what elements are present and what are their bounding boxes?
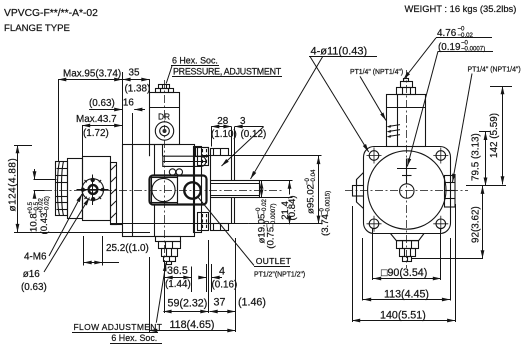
svg-text:(0.63): (0.63) [89, 98, 115, 109]
svg-text:(0.16): (0.16) [212, 280, 238, 291]
svg-text:FLOW ADJUSTMENT: FLOW ADJUSTMENT [74, 322, 163, 332]
svg-text:ø95.02: ø95.02 [306, 184, 317, 214]
svg-text:(0.63): (0.63) [21, 282, 47, 293]
svg-text:PT1/4" (NPT1/4"): PT1/4" (NPT1/4") [468, 67, 521, 74]
svg-text:59(2.32): 59(2.32) [168, 298, 208, 310]
svg-text:DR: DR [158, 112, 170, 122]
svg-text:4-M6: 4-M6 [24, 252, 47, 263]
svg-text:−0.02): −0.02) [44, 196, 51, 213]
svg-text:36.5: 36.5 [167, 265, 188, 277]
svg-text:140(5.51): 140(5.51) [380, 310, 426, 322]
svg-text:WEIGHT : 16 kgs (35.2lbs): WEIGHT : 16 kgs (35.2lbs) [405, 3, 517, 14]
svg-text:25.2((1.0): 25.2((1.0) [106, 243, 149, 254]
svg-text:10.8: 10.8 [29, 213, 40, 232]
svg-text:6 Hex. Soc.: 6 Hex. Soc. [172, 56, 218, 66]
svg-text:□90(3.54): □90(3.54) [381, 267, 427, 279]
svg-text:OUTLET: OUTLET [256, 256, 292, 266]
svg-text:3: 3 [240, 116, 246, 127]
svg-text:FLANGE TYPE: FLANGE TYPE [4, 23, 70, 34]
svg-text:−0.0015): −0.0015) [325, 191, 332, 215]
svg-text:28: 28 [217, 116, 228, 127]
svg-text:4: 4 [219, 266, 225, 278]
svg-text:92(3.62): 92(3.62) [471, 206, 482, 243]
svg-text:ø124(4.88): ø124(4.88) [8, 158, 19, 212]
svg-text:35: 35 [129, 68, 140, 79]
svg-text:PRESSURE, ADJUSTMENT: PRESSURE, ADJUSTMENT [173, 67, 282, 77]
svg-text:−0.04: −0.04 [310, 169, 317, 185]
svg-text:(0.75: (0.75 [266, 227, 277, 249]
svg-text:(0.84): (0.84) [287, 195, 298, 220]
svg-text:Max.95(3.74): Max.95(3.74) [63, 69, 121, 80]
svg-text:Max.43.7: Max.43.7 [76, 114, 117, 125]
svg-text:(3.74: (3.74 [320, 213, 331, 236]
svg-text:113(4.45): 113(4.45) [384, 289, 429, 301]
svg-text:PT1/4" (NPT1/4"): PT1/4" (NPT1/4") [350, 69, 403, 76]
svg-text:4-ø11(0.43): 4-ø11(0.43) [311, 46, 368, 58]
svg-text:−0.02: −0.02 [261, 198, 268, 214]
svg-text:16: 16 [123, 98, 134, 109]
svg-text:79.5 (3.13): 79.5 (3.13) [471, 133, 482, 181]
svg-text:(1.38): (1.38) [125, 84, 151, 95]
svg-text:142 (5.59): 142 (5.59) [489, 113, 500, 158]
svg-text:(1.44): (1.44) [165, 279, 191, 290]
svg-text:PT1/2"(NPT1/2"): PT1/2"(NPT1/2") [254, 272, 305, 279]
svg-text:(1.46): (1.46) [238, 297, 266, 309]
svg-text:118(4.65): 118(4.65) [170, 319, 215, 331]
svg-text:6 Hex. Soc.: 6 Hex. Soc. [111, 333, 157, 343]
svg-text:(0.12): (0.12) [241, 129, 267, 140]
svg-text:37: 37 [214, 297, 226, 309]
svg-text:VPVCG-F**/**-A*-02: VPVCG-F**/**-A*-02 [4, 8, 98, 19]
svg-text:ø16: ø16 [23, 269, 41, 280]
svg-text:(0.43: (0.43 [39, 213, 50, 235]
svg-text:(1.10): (1.10) [211, 129, 237, 140]
svg-text:(1.72): (1.72) [83, 128, 109, 139]
svg-text:−0.0007): −0.0007) [270, 203, 277, 227]
